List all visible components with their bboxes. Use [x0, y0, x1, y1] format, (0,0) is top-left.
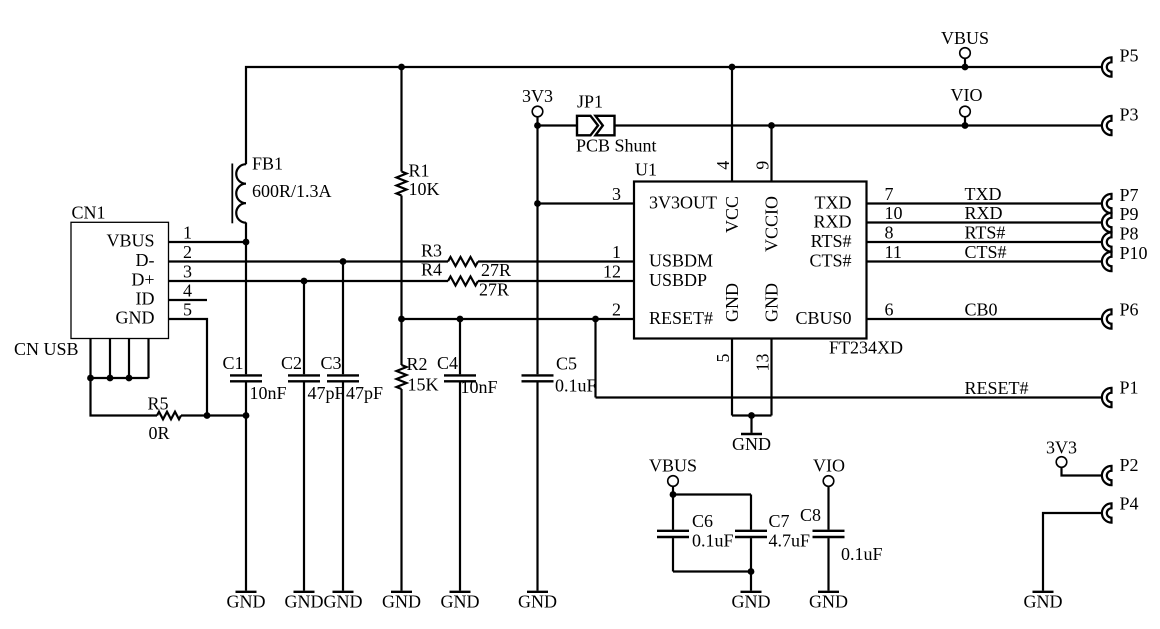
svg-text:13: 13: [753, 354, 773, 372]
connector pin P9: [1102, 213, 1112, 232]
svg-text:ID: ID: [136, 289, 155, 309]
capacitor C4: [444, 375, 476, 381]
svg-text:GND: GND: [809, 592, 848, 612]
svg-text:VIO: VIO: [951, 85, 983, 105]
svg-text:D+: D+: [131, 270, 154, 290]
svg-text:P2: P2: [1120, 455, 1139, 475]
wire C7 bottom lead: [750, 538, 752, 571]
svg-text:RTS#: RTS#: [811, 231, 852, 251]
connector pin P6: [1102, 309, 1112, 328]
svg-text:4: 4: [183, 281, 192, 301]
wire C8 bottom lead to GND: [827, 538, 829, 591]
power symbol VIO bottom: [823, 476, 834, 487]
wire VCC pin4 stub: [731, 67, 733, 182]
ground C7: [732, 592, 771, 612]
wire D+ row right to USBDP: [478, 280, 634, 282]
svg-text:0R: 0R: [149, 423, 170, 443]
svg-text:U1: U1: [635, 160, 657, 180]
node C6 top: [670, 491, 677, 498]
connector pin P7: [1102, 194, 1112, 213]
svg-text:R4: R4: [421, 260, 442, 280]
svg-text:GND: GND: [518, 592, 557, 612]
wire GND pin5 chip stub: [731, 339, 733, 416]
svg-text:C3: C3: [321, 353, 342, 373]
svg-text:9: 9: [753, 161, 773, 170]
node FB1/C1/pin1: [243, 239, 250, 246]
svg-text:4.7uF: 4.7uF: [769, 531, 811, 551]
svg-text:GND: GND: [382, 592, 421, 612]
svg-text:CTS#: CTS#: [965, 242, 1007, 262]
svg-text:GND: GND: [761, 283, 781, 322]
ground R2: [382, 592, 421, 612]
wire VBUS bottom stub: [672, 486, 674, 495]
connector pin P5: [1102, 57, 1112, 76]
ground C4: [441, 592, 480, 612]
wire GND pin13 chip stub: [770, 339, 772, 416]
svg-text:CN1: CN1: [72, 202, 106, 222]
wire C6-C7 top join: [673, 493, 751, 495]
svg-text:0.1uF: 0.1uF: [555, 376, 597, 396]
svg-text:4: 4: [713, 161, 733, 170]
svg-text:TXD: TXD: [965, 184, 1002, 204]
node 3V3 symbol junction: [534, 122, 541, 129]
wire RESET# dogleg down: [594, 319, 596, 398]
wire chip GND stub down: [750, 416, 752, 433]
capacitor C8: [813, 531, 845, 537]
wire C3 column upper: [342, 262, 344, 375]
wire D- row right to USBDM: [478, 260, 634, 262]
svg-text:27R: 27R: [479, 280, 509, 300]
svg-text:0.1uF: 0.1uF: [692, 531, 734, 551]
wire C3 column lower to GND: [342, 382, 344, 590]
svg-text:600R/1.3A: 600R/1.3A: [252, 181, 332, 201]
svg-text:1: 1: [183, 223, 192, 243]
svg-text:TXD: TXD: [815, 193, 852, 213]
wire D- row left: [169, 260, 449, 262]
wire C6-C7 bottom join: [673, 570, 751, 572]
power symbol 3V3 right: [1056, 457, 1067, 468]
wire C1 column upper: [245, 242, 247, 374]
svg-text:5: 5: [183, 300, 192, 320]
wire RTS# row: [867, 241, 1104, 243]
wire R2 bottom lead to GND: [400, 389, 402, 591]
svg-text:R5: R5: [148, 394, 169, 414]
wire R1-R2 middle lead: [400, 196, 402, 366]
wire VBUS top rail: [246, 67, 1103, 164]
svg-text:C8: C8: [800, 505, 821, 525]
wire C4 column upper: [459, 319, 461, 374]
wire C7 GND stub: [750, 572, 752, 591]
svg-text:FB1: FB1: [252, 154, 283, 174]
wire VIO rail right of JP1: [615, 124, 1104, 126]
svg-text:CBUS0: CBUS0: [795, 308, 851, 328]
svg-text:2: 2: [612, 300, 621, 320]
node C7 bottom: [748, 568, 755, 575]
ground C8: [809, 592, 848, 612]
svg-text:USBDP: USBDP: [649, 270, 707, 290]
svg-text:RESET#: RESET#: [965, 378, 1029, 398]
svg-text:USBDM: USBDM: [649, 251, 713, 271]
svg-text:GND: GND: [285, 592, 324, 612]
wire R5 right lead: [181, 414, 246, 416]
svg-text:C6: C6: [692, 511, 713, 531]
svg-text:3: 3: [612, 184, 621, 204]
resistor R5: [157, 412, 181, 420]
svg-text:12: 12: [603, 262, 621, 282]
node shield bus 2: [107, 375, 114, 382]
node R1 top on VBUS rail: [398, 64, 405, 71]
resistor R2: [397, 365, 407, 389]
node C2 on D+: [301, 278, 308, 285]
node VCCIO on VIO rail: [768, 122, 775, 129]
svg-text:CTS#: CTS#: [809, 251, 851, 271]
resistor R1: [397, 172, 407, 196]
wire 3V3/C5 column upper: [536, 126, 538, 375]
svg-text:R2: R2: [407, 354, 428, 374]
wire 3V3 to P2: [1062, 467, 1104, 476]
connector pin P1: [1102, 388, 1112, 407]
ground C1: [227, 592, 266, 612]
wire VIO power stub top: [964, 117, 966, 126]
svg-text:P1: P1: [1120, 378, 1139, 398]
svg-text:2: 2: [183, 242, 192, 262]
wire CN1 GND pin5 dogleg: [169, 319, 208, 416]
svg-text:10nF: 10nF: [461, 377, 498, 397]
svg-text:FT234XD: FT234XD: [829, 338, 903, 358]
connector pin P8: [1102, 232, 1112, 251]
wire GND pins join: [732, 414, 772, 416]
svg-text:P5: P5: [1120, 46, 1139, 66]
ground U1 pins: [732, 434, 771, 454]
svg-text:JP1: JP1: [577, 92, 603, 112]
wire C1 column lower to GND: [245, 382, 247, 590]
svg-text:47pF: 47pF: [346, 383, 383, 403]
svg-text:10nF: 10nF: [250, 383, 287, 403]
svg-text:15K: 15K: [408, 375, 439, 395]
node VIO symbol junction: [962, 122, 969, 129]
svg-text:P9: P9: [1120, 204, 1139, 224]
wire RESET# out to P1: [596, 396, 1104, 398]
wire C2 column upper: [303, 281, 305, 374]
svg-text:VCCIO: VCCIO: [761, 196, 781, 252]
svg-text:P3: P3: [1120, 105, 1139, 125]
node shield bus 1: [87, 375, 94, 382]
power symbol VBUS top: [960, 48, 971, 59]
svg-text:7: 7: [885, 184, 894, 204]
power symbol 3V3 left: [532, 106, 543, 117]
svg-text:GND: GND: [227, 592, 266, 612]
svg-text:6: 6: [885, 300, 894, 320]
power symbol VBUS bottom: [668, 476, 679, 487]
wire VCCIO pin9 stub: [770, 126, 772, 182]
wire RXD row: [867, 221, 1104, 223]
node chip GND join: [748, 412, 755, 419]
connector pin P4: [1102, 503, 1112, 522]
wire RESET# row to pin2: [402, 318, 635, 320]
wire 3V3OUT pin3 row: [538, 202, 635, 204]
wire ID stub: [169, 299, 208, 301]
svg-text:RXD: RXD: [965, 203, 1003, 223]
svg-text:D-: D-: [136, 250, 155, 270]
svg-text:P8: P8: [1120, 224, 1139, 244]
wire C2 column lower to GND: [303, 382, 305, 590]
resistor R3: [448, 257, 478, 266]
svg-text:3V3OUT: 3V3OUT: [649, 193, 717, 213]
svg-text:C2: C2: [281, 353, 302, 373]
wire VIO rail left of JP1: [538, 124, 578, 126]
svg-text:GND: GND: [324, 592, 363, 612]
capacitor C1: [230, 375, 262, 381]
wire C6 bottom lead: [672, 538, 674, 571]
jumper JP1 PCB shunt: [577, 116, 615, 136]
node VBUS symbol junction: [962, 64, 969, 71]
ground C5: [518, 592, 557, 612]
connector pin P2: [1102, 466, 1112, 485]
svg-text:VBUS: VBUS: [941, 28, 989, 48]
svg-text:VIO: VIO: [813, 456, 845, 476]
node C5 on 3V3OUT: [534, 200, 541, 207]
svg-text:GND: GND: [441, 592, 480, 612]
svg-text:P10: P10: [1120, 243, 1148, 263]
wire C5 column lower to GND: [536, 382, 538, 590]
svg-text:1: 1: [612, 242, 621, 262]
svg-text:10: 10: [885, 203, 903, 223]
svg-text:GND: GND: [1024, 592, 1063, 612]
connector pin P10: [1102, 252, 1112, 271]
node C4 on RESET row: [457, 316, 464, 323]
node pin5 gnd join: [204, 412, 211, 419]
svg-text:PCB Shunt: PCB Shunt: [576, 136, 657, 156]
wire C4 column lower to GND: [459, 382, 461, 590]
ferrite bead FB1: [232, 164, 246, 224]
svg-text:3V3: 3V3: [522, 86, 553, 106]
svg-text:GND: GND: [116, 308, 155, 328]
svg-text:C7: C7: [769, 511, 790, 531]
svg-text:VBUS: VBUS: [649, 456, 697, 476]
capacitor C2: [288, 375, 320, 381]
capacitor C3: [327, 375, 359, 381]
svg-text:3: 3: [183, 262, 192, 282]
wire C6 top lead: [672, 495, 674, 530]
svg-text:47pF: 47pF: [308, 383, 345, 403]
wire CN1 shield stubs: [91, 339, 149, 378]
node R5/C1 gnd join: [243, 412, 250, 419]
svg-text:P4: P4: [1120, 494, 1139, 514]
svg-text:11: 11: [885, 242, 902, 262]
node shield bus 3: [126, 375, 133, 382]
svg-text:GND: GND: [732, 592, 771, 612]
svg-text:P7: P7: [1120, 185, 1139, 205]
connector pin P3: [1102, 116, 1112, 135]
wire TXD row: [867, 202, 1104, 204]
svg-text:GND: GND: [722, 283, 742, 322]
svg-text:RXD: RXD: [813, 212, 851, 232]
IC U1 FT234XD body: [634, 182, 867, 339]
wire CN1 shield bus: [91, 377, 149, 379]
power symbol VIO top: [960, 106, 971, 117]
wire 3V3 power stub: [536, 117, 538, 126]
svg-text:8: 8: [885, 223, 894, 243]
svg-text:C1: C1: [223, 353, 244, 373]
svg-text:C5: C5: [556, 354, 577, 374]
svg-text:10K: 10K: [409, 179, 440, 199]
svg-text:RTS#: RTS#: [965, 223, 1006, 243]
wire R5 left lead: [91, 378, 158, 416]
node R1/R2 on RESET row: [398, 316, 405, 323]
connector CN1 body: [71, 222, 169, 338]
svg-text:CB0: CB0: [965, 300, 998, 320]
svg-text:C4: C4: [437, 353, 458, 373]
wire VIO bottom stub C8 top: [827, 486, 829, 530]
svg-text:3V3: 3V3: [1046, 438, 1077, 458]
svg-text:27R: 27R: [481, 260, 511, 280]
ground C3: [324, 592, 363, 612]
svg-text:R1: R1: [409, 161, 430, 181]
wire CN1 pin1 to FB1 node: [169, 241, 247, 243]
svg-text:GND: GND: [732, 434, 771, 454]
svg-text:0.1uF: 0.1uF: [841, 544, 883, 564]
capacitor C6: [657, 531, 689, 537]
svg-text:VCC: VCC: [722, 196, 742, 233]
wire CTS# row: [867, 260, 1104, 262]
capacitor C5: [522, 375, 554, 381]
resistor R4: [448, 277, 478, 286]
capacitor C7: [735, 531, 767, 537]
wire C7 top lead: [750, 495, 752, 530]
ground C2: [285, 592, 324, 612]
svg-text:P6: P6: [1120, 300, 1139, 320]
svg-text:5: 5: [713, 354, 733, 363]
svg-text:RESET#: RESET#: [649, 308, 713, 328]
ground P4: [1024, 592, 1063, 612]
wire P4 to GND: [1043, 513, 1103, 591]
wire FB1 bottom lead: [245, 222, 247, 242]
node C3 on D-: [340, 258, 347, 265]
wire D+ row left: [169, 280, 449, 282]
node RESET dogleg: [592, 316, 599, 323]
svg-text:R3: R3: [421, 241, 442, 261]
wire R1 top lead: [400, 67, 402, 172]
wire CBUS0 row: [867, 318, 1104, 320]
svg-text:CN USB: CN USB: [14, 339, 79, 359]
node VCC on VBUS rail: [729, 64, 736, 71]
svg-text:VBUS: VBUS: [106, 231, 154, 251]
wire VBUS power stub top: [964, 58, 966, 67]
